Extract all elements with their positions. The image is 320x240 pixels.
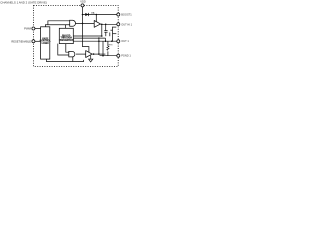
svg-text:LOGIC: LOGIC: [42, 43, 49, 45]
svg-text:CHANNELS 1 AND 2 (GATE DRIVE): CHANNELS 1 AND 2 (GATE DRIVE): [0, 1, 47, 5]
svg-text:PREVENTION: PREVENTION: [59, 40, 74, 42]
svg-text:PGND 1: PGND 1: [121, 54, 131, 58]
svg-text:OUT 1: OUT 1: [121, 39, 129, 43]
svg-text:RESET/ENABLE: RESET/ENABLE: [11, 39, 31, 43]
svg-text:OUT HI 1: OUT HI 1: [121, 22, 132, 26]
svg-text:RHI: RHI: [109, 45, 113, 47]
svg-text:PWM: PWM: [24, 27, 32, 31]
svg-text:BOOST1: BOOST1: [121, 12, 132, 16]
svg-text:VDD: VDD: [80, 0, 86, 3]
svg-text:HB: HB: [91, 13, 95, 15]
